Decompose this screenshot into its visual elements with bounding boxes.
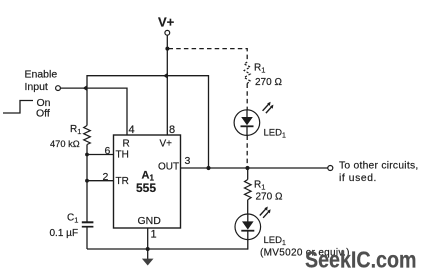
junction dot: LED chain joins output wire — [245, 166, 249, 170]
svg-text:470 kΩ: 470 kΩ — [50, 139, 80, 149]
svg-text:4: 4 — [129, 124, 135, 136]
wire (dashed): V+ branch across and down to R2 — [169, 49, 248, 62]
wire: pin 1 to ground rail — [147, 228, 149, 249]
svg-text:V+: V+ — [158, 15, 175, 30]
ground symbol — [147, 249, 149, 259]
svg-text:To other circuits,: To other circuits, — [339, 161, 418, 172]
svg-text:270 Ω: 270 Ω — [256, 192, 283, 203]
svg-text:Enable: Enable — [25, 69, 58, 81]
svg-text:R1: R1 — [254, 63, 265, 75]
wire: tap to pin 6 TH — [87, 154, 114, 156]
ground rail wire — [87, 248, 248, 250]
step waveform symbol — [3, 101, 33, 114]
svg-text:Off: Off — [36, 108, 50, 120]
svg-text:if used.: if used. — [339, 173, 377, 184]
resistor R2 270 ohm (dashed zigzag) — [244, 62, 250, 84]
LED2 light-emission arrows — [260, 209, 269, 218]
svg-text:LED1: LED1 — [264, 235, 286, 247]
svg-text:270 Ω: 270 Ω — [255, 77, 282, 88]
V+ terminal — [165, 30, 170, 35]
wire: C1 to ground rail — [86, 228, 88, 250]
junction dot at TR tap — [85, 179, 89, 183]
svg-text:Input: Input — [25, 81, 48, 93]
svg-text:OUT: OUT — [158, 162, 179, 173]
LED2 (lower) — [235, 214, 261, 240]
svg-text:LED1: LED1 — [264, 127, 286, 139]
junction dot at ground symbol — [146, 247, 150, 251]
enable input terminal — [56, 86, 61, 91]
svg-text:C1: C1 — [67, 213, 78, 225]
top rail wire from R1 top to down-lead — [87, 76, 209, 167]
svg-text:8: 8 — [169, 124, 175, 136]
svg-text:1: 1 — [151, 229, 157, 241]
svg-text:R1: R1 — [70, 124, 81, 136]
resistor R1 470k zigzag — [84, 126, 91, 145]
wire: tap to pin 2 TR — [87, 180, 114, 182]
junction arrow mark where top rail crosses V+ line — [163, 73, 168, 79]
svg-text:555: 555 — [136, 181, 156, 195]
wire: V+ terminal down to pin 8 of 555 — [166, 35, 168, 135]
wire: R3 to LED2 — [247, 200, 249, 214]
svg-text:TR: TR — [116, 176, 129, 187]
IC A1 555 body — [114, 135, 181, 228]
wire: LED2 to ground rail — [247, 240, 249, 250]
svg-text:SeekIC.com: SeekIC.com — [305, 247, 417, 273]
LED1 (upper) — [234, 110, 260, 136]
wire: enable input to pin 4 — [60, 88, 127, 135]
svg-text:3: 3 — [185, 155, 191, 167]
svg-text:0.1 µF: 0.1 µF — [50, 228, 79, 239]
LED1 light-emission arrows — [263, 104, 272, 113]
output terminal — [328, 166, 333, 171]
svg-text:V+: V+ — [160, 139, 173, 150]
resistor R3 270 ohm zigzag — [245, 180, 252, 200]
wire (dashed): R2 to LED1 — [246, 84, 248, 110]
svg-text:2: 2 — [103, 171, 109, 183]
junction dot: V+ branch to dashed feed — [165, 47, 169, 51]
svg-text:R1: R1 — [254, 180, 265, 192]
junction dot at TH tap — [85, 153, 89, 157]
wire: R1 bottom to C1, with taps to TH and TR — [86, 145, 88, 222]
junction arrow mark where enable wire meets R1 lead — [83, 85, 88, 91]
svg-text:TH: TH — [116, 150, 129, 161]
wire (dashed): LED1 down to output node — [246, 136, 248, 167]
svg-text:6: 6 — [105, 145, 111, 157]
svg-text:GND: GND — [138, 215, 162, 227]
junction dot: down-lead joins output wire — [206, 166, 210, 170]
wire: output node down to R3 — [247, 168, 249, 180]
svg-text:R: R — [123, 139, 130, 150]
output wire from pin 3 to terminal — [181, 167, 328, 169]
capacitor C1 — [82, 222, 94, 226]
